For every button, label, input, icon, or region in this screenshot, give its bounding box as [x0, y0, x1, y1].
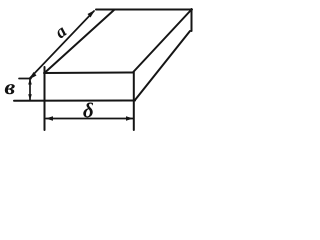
arrowhead dim b right — [126, 116, 134, 120]
label b (delta) — [83, 103, 93, 118]
dimension line b (bottom) — [46, 118, 133, 120]
edge: front face top edge — [44, 72, 133, 75]
arrowhead dim b left — [46, 116, 54, 120]
label v — [5, 84, 15, 94]
edge: front-right vertical with dim extension — [133, 72, 135, 130]
arrowhead dim v up — [28, 79, 32, 85]
arrowhead dim a lower end — [29, 72, 37, 80]
arrowhead dim a upper end — [88, 10, 96, 18]
edge: top face right receding edge — [133, 10, 192, 73]
extension tick for dim v top — [19, 78, 31, 80]
edge: front-left vertical with dim extension — [44, 67, 46, 130]
label a — [58, 27, 67, 38]
edge: top face back edge (with left extension for dim a) — [96, 9, 192, 11]
dimension line v (vertical) — [29, 79, 31, 101]
dimension line a — [30, 11, 94, 78]
edge: front face bottom edge (with left extension for dim v) — [14, 100, 135, 102]
edge: back-right vertical — [191, 9, 193, 31]
edge: top face left receding edge — [45, 10, 114, 73]
edge: bottom right receding edge — [135, 31, 190, 100]
arrowhead dim v down — [28, 94, 32, 100]
